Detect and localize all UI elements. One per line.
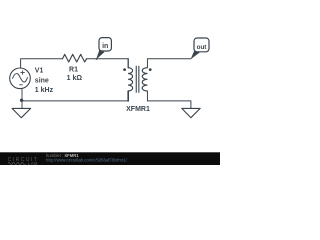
svg-text:in: in bbox=[102, 43, 108, 50]
voltage source V1 bbox=[10, 68, 31, 89]
node A junction dot bbox=[20, 99, 23, 102]
wire: primary bottom pin bbox=[127, 91, 129, 101]
svg-text:XFMR1: XFMR1 bbox=[126, 106, 150, 113]
wire: V1 bottom through node A to left ground bbox=[21, 89, 23, 109]
svg-text:sine: sine bbox=[35, 77, 49, 84]
wire: resistor to transformer primary bbox=[87, 58, 129, 60]
svg-text:V1: V1 bbox=[35, 68, 44, 75]
wire: V1 top to resistor bbox=[21, 59, 63, 68]
flag pointer in bbox=[96, 50, 105, 60]
ground right bbox=[182, 108, 200, 117]
flag box in bbox=[99, 38, 111, 51]
svg-text:R1: R1 bbox=[69, 67, 78, 74]
transformer XFMR1 primary coil bbox=[128, 68, 133, 91]
wire: primary top pin bbox=[127, 59, 129, 68]
resistor R1 bbox=[63, 54, 87, 62]
flag pointer out bbox=[191, 50, 201, 59]
flag box out bbox=[194, 38, 209, 52]
phase dot primary bbox=[123, 68, 126, 71]
label V1 value bbox=[35, 68, 54, 94]
transformer XFMR1 secondary coil bbox=[142, 68, 147, 91]
label R1 value bbox=[67, 67, 83, 83]
svg-text:out: out bbox=[197, 44, 208, 51]
svg-text:LAB: LAB bbox=[28, 161, 38, 165]
wire: transformer secondary bottom to right ground bbox=[147, 91, 190, 108]
logo wave bbox=[8, 163, 26, 165]
svg-text:1 kHz: 1 kHz bbox=[35, 87, 54, 94]
wire: transformer secondary top to out node bbox=[147, 59, 191, 68]
transformer XFMR1 core bbox=[136, 66, 139, 93]
footer bar bbox=[0, 152, 220, 165]
svg-text:1 kΩ: 1 kΩ bbox=[67, 75, 83, 82]
ground left bbox=[12, 108, 31, 117]
phase dot secondary bbox=[149, 68, 152, 71]
svg-text:http://www.circuitlab.com/c/5d: http://www.circuitlab.com/c/5d56af78/xfm… bbox=[46, 157, 128, 162]
wire: transformer primary bottom to node A bbox=[22, 100, 128, 102]
